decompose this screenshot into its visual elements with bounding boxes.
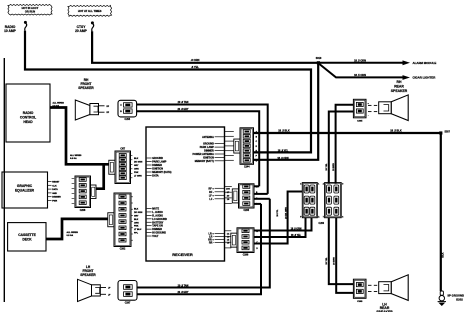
svg-text:SPEAKER: SPEAKER bbox=[391, 89, 408, 93]
svg-text:CIGAR LIGHTER: CIGAR LIGHTER bbox=[413, 76, 437, 80]
svg-text:20 YEL: 20 YEL bbox=[326, 257, 328, 265]
svg-text:C244: C244 bbox=[244, 166, 250, 169]
svg-text:10 AMP: 10 AMP bbox=[4, 29, 17, 33]
svg-text:0.8 GA: 0.8 GA bbox=[67, 234, 74, 237]
svg-text:6: 6 bbox=[342, 217, 343, 219]
svg-text:20 .8 TAN: 20 .8 TAN bbox=[178, 284, 189, 287]
svg-text:20 AMP: 20 AMP bbox=[75, 29, 88, 33]
svg-text:CLK: CLK bbox=[52, 185, 57, 187]
svg-text:OR RUN: OR RUN bbox=[25, 10, 35, 14]
svg-text:LT GRN: LT GRN bbox=[134, 175, 142, 177]
svg-text:18 .8 YEL: 18 .8 YEL bbox=[278, 149, 289, 152]
svg-text:GRY: GRY bbox=[134, 165, 139, 167]
svg-text:VOLT: VOLT bbox=[152, 235, 159, 238]
svg-text:20 DK GRN: 20 DK GRN bbox=[285, 207, 287, 219]
svg-text:18 .8 ORN: 18 .8 ORN bbox=[277, 157, 289, 160]
svg-text:20 BRN: 20 BRN bbox=[334, 257, 336, 265]
svg-text:CONTROL: CONTROL bbox=[20, 116, 36, 120]
svg-text:GRY: GRY bbox=[134, 215, 139, 217]
svg-text:18 .5 ORN: 18 .5 ORN bbox=[354, 60, 366, 63]
svg-text:C208: C208 bbox=[80, 210, 86, 212]
svg-text:CASSETTE: CASSETTE bbox=[18, 233, 36, 237]
svg-text:ALL WIRES: ALL WIRES bbox=[67, 231, 79, 234]
svg-text:18 .8 YEL: 18 .8 YEL bbox=[291, 235, 302, 237]
svg-text:HOT AT ALL TIMES: HOT AT ALL TIMES bbox=[78, 9, 102, 13]
svg-text:S310: S310 bbox=[316, 57, 322, 60]
svg-text:RR -: RR - bbox=[209, 242, 214, 245]
svg-text:PWR: PWR bbox=[52, 201, 57, 203]
svg-text:18 .5 ORN: 18 .5 ORN bbox=[354, 74, 366, 77]
svg-text:BLK: BLK bbox=[134, 209, 139, 211]
svg-text:MEMORY (BATT): MEMORY (BATT) bbox=[195, 160, 214, 163]
svg-text:DK GRN: DK GRN bbox=[134, 212, 143, 214]
svg-text:ALL WIRES: ALL WIRES bbox=[70, 154, 82, 157]
svg-text:C294: C294 bbox=[125, 118, 131, 121]
svg-text:DIMMER: DIMMER bbox=[52, 197, 61, 199]
svg-text:9: 9 bbox=[342, 184, 343, 186]
svg-text:C202: C202 bbox=[120, 249, 126, 251]
svg-text:20 YEL: 20 YEL bbox=[326, 163, 328, 171]
svg-text:.8 ORN: .8 ORN bbox=[191, 58, 200, 62]
svg-text:RH: RH bbox=[397, 80, 402, 84]
svg-text:18 .8 ORN: 18 .8 ORN bbox=[291, 228, 302, 230]
svg-text:DECK: DECK bbox=[22, 238, 32, 242]
svg-text:ANTENNA: ANTENNA bbox=[202, 136, 214, 139]
svg-text:CNT: CNT bbox=[120, 148, 125, 150]
svg-text:18 .5 BLK: 18 .5 BLK bbox=[278, 130, 290, 133]
svg-text:SPEAKER: SPEAKER bbox=[80, 273, 96, 277]
svg-text:REAR: REAR bbox=[394, 85, 404, 89]
svg-text:C305: C305 bbox=[357, 120, 363, 122]
svg-text:ALARM MODULE: ALARM MODULE bbox=[413, 61, 437, 65]
svg-text:ALL WIRES: ALL WIRES bbox=[53, 101, 65, 104]
svg-text:BLK: BLK bbox=[134, 158, 139, 160]
svg-text:1: 1 bbox=[318, 184, 319, 186]
svg-text:BLK: BLK bbox=[441, 252, 444, 257]
svg-text:C200: C200 bbox=[319, 223, 325, 225]
svg-text:RADIO: RADIO bbox=[23, 111, 34, 115]
svg-text:GND: GND bbox=[52, 193, 57, 195]
svg-text:20 .8 TAN: 20 .8 TAN bbox=[178, 101, 189, 104]
svg-text:RESET: RESET bbox=[52, 182, 60, 184]
svg-text:DATA: DATA bbox=[52, 188, 58, 191]
svg-text:18 .5 BLK: 18 .5 BLK bbox=[390, 130, 402, 133]
svg-text:20 BRN: 20 BRN bbox=[333, 163, 335, 171]
svg-text:G202: G202 bbox=[456, 297, 463, 301]
svg-text:BLK: BLK bbox=[134, 219, 139, 221]
svg-text:.8 YEL: .8 YEL bbox=[191, 65, 199, 69]
svg-text:0.8 GA: 0.8 GA bbox=[53, 105, 60, 108]
svg-text:RECEIVER: RECEIVER bbox=[172, 252, 193, 257]
svg-text:20 .8 GRY: 20 .8 GRY bbox=[177, 108, 188, 111]
svg-text:C305: C305 bbox=[357, 301, 363, 303]
svg-text:C297: C297 bbox=[125, 303, 131, 305]
svg-text:HOT IN ACCY: HOT IN ACCY bbox=[22, 6, 39, 10]
svg-text:7: 7 bbox=[323, 217, 324, 219]
svg-text:C295: C295 bbox=[244, 210, 250, 212]
svg-text:ORN: ORN bbox=[134, 222, 139, 224]
svg-text:2: 2 bbox=[323, 184, 324, 186]
svg-text:S307: S307 bbox=[445, 131, 451, 133]
svg-text:DATA: DATA bbox=[152, 175, 159, 178]
svg-text:EQUALIZER: EQUALIZER bbox=[15, 189, 35, 193]
svg-text:20 .8 GRY: 20 .8 GRY bbox=[177, 291, 188, 294]
svg-text:C296: C296 bbox=[243, 255, 249, 257]
svg-text:HEAD: HEAD bbox=[23, 120, 33, 124]
svg-text:SPEAKER: SPEAKER bbox=[78, 86, 94, 90]
svg-text:GRAPHIC: GRAPHIC bbox=[17, 184, 33, 188]
svg-text:0.8 GA: 0.8 GA bbox=[70, 157, 77, 160]
svg-text:20 PPL: 20 PPL bbox=[277, 209, 279, 217]
svg-text:DK GRN: DK GRN bbox=[134, 161, 143, 163]
svg-text:LT BLU: LT BLU bbox=[134, 229, 142, 231]
svg-text:PNK: PNK bbox=[134, 226, 139, 228]
svg-text:LF -: LF - bbox=[209, 198, 214, 201]
svg-text:PNK: PNK bbox=[134, 172, 139, 174]
svg-text:ORN: ORN bbox=[134, 168, 139, 170]
